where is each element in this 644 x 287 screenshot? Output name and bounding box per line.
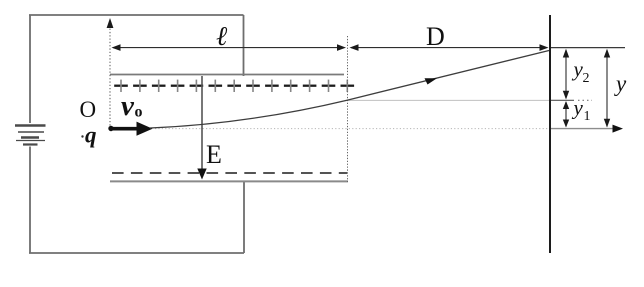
plus charges row — [114, 80, 354, 92]
svg-text:1: 1 — [584, 109, 591, 124]
wire bottom horizontal — [29, 252, 244, 254]
x-axis line right of screen with arrow — [551, 128, 616, 130]
exit-height guide line — [348, 99, 549, 101]
svg-text:D: D — [426, 22, 445, 51]
y1 double arrow — [565, 102, 567, 127]
bottom plate — [110, 180, 348, 182]
label q with dot — [81, 135, 83, 137]
particle dot at O — [108, 126, 113, 131]
svg-text:ℓ: ℓ — [216, 21, 228, 51]
trajectory curve in plates — [150, 51, 549, 129]
screen vertical line — [549, 15, 551, 253]
plate-end dotted vertical — [347, 36, 349, 182]
E field arrow — [201, 76, 203, 171]
negative charges dashed line — [112, 172, 347, 174]
wire bottom-left vertical — [29, 147, 31, 254]
svg-text:E: E — [206, 140, 222, 169]
top reference line — [551, 47, 625, 49]
wire down to top plate — [243, 15, 245, 76]
svg-text:y: y — [614, 71, 627, 96]
dimension line l — [113, 47, 344, 49]
svg-text:y: y — [572, 96, 584, 120]
wire up to bottom plate — [243, 181, 245, 253]
wire top-left vertical — [29, 15, 31, 123]
top plate — [110, 74, 344, 76]
svg-text:o: o — [135, 104, 143, 121]
svg-text:O: O — [80, 97, 97, 122]
y double arrow — [606, 50, 608, 127]
svg-text:2: 2 — [583, 71, 590, 86]
mid reference tick — [551, 99, 574, 101]
y-axis dotted vertical at O — [109, 22, 111, 128]
battery B1 — [15, 126, 46, 145]
trajectory arrowhead — [425, 78, 438, 84]
svg-text:q: q — [85, 123, 97, 148]
v0 thick arrow — [112, 127, 138, 131]
y2 double arrow — [565, 50, 567, 98]
svg-text:v: v — [121, 90, 135, 122]
y-axis arrowhead — [107, 18, 114, 28]
wire top horizontal — [29, 14, 244, 16]
dimension line D — [351, 47, 546, 49]
horizontal axis dotted (from O to screen) — [155, 128, 549, 130]
